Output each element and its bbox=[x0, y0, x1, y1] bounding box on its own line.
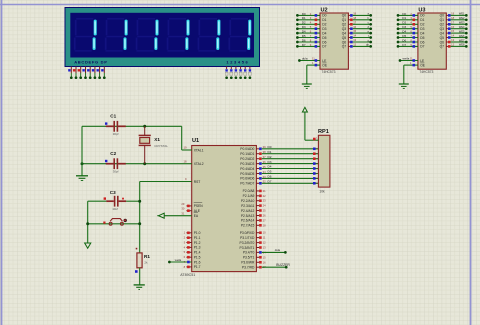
U1 pin 26 P2.5 bbox=[256, 214, 266, 218]
svg-text:D5: D5 bbox=[402, 34, 406, 38]
wire C3 left elbow down bbox=[88, 201, 140, 243]
svg-text:21: 21 bbox=[263, 189, 266, 193]
display segment pin DP bbox=[101, 67, 105, 80]
U2 input pin D6 wire + net label D6 bbox=[296, 38, 320, 43]
svg-text:D2: D2 bbox=[402, 21, 406, 25]
wire button row bbox=[88, 223, 140, 225]
U1 pin 29 PSEN bbox=[181, 202, 191, 207]
svg-text:D1: D1 bbox=[322, 18, 326, 22]
U2 output pin Q7 (pin 12) wire + net label dp bbox=[348, 43, 372, 48]
svg-text:Q1: Q1 bbox=[440, 18, 445, 22]
svg-text:D7: D7 bbox=[420, 45, 424, 49]
svg-text:D3: D3 bbox=[268, 160, 272, 164]
svg-text:ABCDEFG DP: ABCDEFG DP bbox=[74, 59, 107, 64]
U3 input pin D3 wire + net label D3 bbox=[397, 25, 418, 30]
U3 output pin Q4 (pin 15) wire + net label WE5 bbox=[446, 29, 467, 34]
svg-text:30: 30 bbox=[181, 207, 184, 211]
svg-text:D0: D0 bbox=[420, 14, 424, 18]
svg-text:PSEN: PSEN bbox=[194, 204, 204, 208]
display segment pin F bbox=[92, 67, 96, 80]
U2 LE pin (11) wire, net label dula bbox=[298, 57, 320, 62]
svg-text:Q5: Q5 bbox=[342, 36, 347, 40]
svg-text:dula: dula bbox=[275, 248, 281, 252]
U1 pin 23 P2.2 bbox=[256, 199, 266, 203]
svg-text:WE7: WE7 bbox=[459, 38, 465, 42]
svg-text:D6: D6 bbox=[322, 40, 326, 44]
svg-text:P1.3: P1.3 bbox=[194, 246, 201, 250]
capacitor C2 30pf bbox=[105, 151, 126, 173]
RP1 pin 4 bbox=[313, 157, 318, 160]
svg-text:P1.1: P1.1 bbox=[194, 236, 201, 240]
capacitor C1 30pf bbox=[105, 114, 126, 137]
svg-text:31: 31 bbox=[181, 212, 184, 216]
svg-text:74HC573: 74HC573 bbox=[419, 70, 433, 74]
svg-text:D4: D4 bbox=[420, 31, 424, 35]
display digit 5 showing 1 bbox=[198, 18, 221, 52]
svg-text:P1.6: P1.6 bbox=[194, 260, 201, 264]
svg-text:P3.3/INT1: P3.3/INT1 bbox=[240, 246, 255, 250]
wire RST net from U1 bbox=[140, 182, 192, 253]
svg-text:D3: D3 bbox=[302, 25, 306, 29]
RP1 pin 5 bbox=[313, 162, 318, 165]
svg-text:D6: D6 bbox=[268, 175, 272, 179]
U1 pin 3 P1.2 bbox=[184, 240, 192, 244]
svg-text:29: 29 bbox=[181, 202, 184, 206]
U3 input pin D5 wire + net label D5 bbox=[397, 34, 418, 39]
svg-text:Q7: Q7 bbox=[440, 45, 445, 49]
resistor pack RP1 10k body bbox=[318, 129, 330, 193]
svg-text:39: 39 bbox=[263, 145, 266, 149]
svg-text:U2: U2 bbox=[321, 7, 328, 13]
svg-text:C2: C2 bbox=[110, 151, 116, 156]
svg-text:19: 19 bbox=[184, 146, 187, 150]
ground symbol below C2 bbox=[76, 176, 88, 181]
U1 pin 33 P0.6 wire to RP1, net label D6 bbox=[256, 175, 318, 180]
svg-text:XTAL1: XTAL1 bbox=[194, 148, 204, 152]
U1 pin 36 P0.3 wire to RP1, net label D3 bbox=[256, 160, 318, 165]
svg-text:P2.3/A11: P2.3/A11 bbox=[241, 204, 254, 208]
junction node button left bbox=[86, 222, 89, 225]
U1 pin 9 RST bbox=[185, 177, 187, 181]
svg-text:P0.5/AD5: P0.5/AD5 bbox=[240, 172, 254, 176]
IC U3 74HC573 body bbox=[418, 7, 446, 74]
svg-text:WE6: WE6 bbox=[459, 34, 465, 38]
svg-text:WE3: WE3 bbox=[459, 21, 465, 25]
svg-text:D7: D7 bbox=[402, 43, 406, 47]
svg-text:D5: D5 bbox=[268, 170, 272, 174]
svg-text:RP1: RP1 bbox=[318, 129, 329, 135]
svg-text:RST: RST bbox=[194, 180, 201, 184]
svg-text:D6: D6 bbox=[420, 40, 424, 44]
svg-text:74HC573: 74HC573 bbox=[322, 70, 336, 74]
svg-text:18: 18 bbox=[184, 160, 187, 164]
svg-text:Q3: Q3 bbox=[342, 27, 347, 31]
U1 pin 39 P0.0 wire to RP1, net label D0 bbox=[256, 145, 318, 150]
IC U2 74HC573 body bbox=[320, 7, 348, 74]
svg-text:D2: D2 bbox=[302, 21, 306, 25]
svg-text:WE1: WE1 bbox=[459, 12, 465, 16]
U2 OE pin (1) wire to ground bbox=[307, 61, 320, 84]
display digit 1 showing 1 bbox=[74, 18, 97, 52]
svg-text:P2.0/A8: P2.0/A8 bbox=[243, 189, 255, 193]
svg-text:P2.2/A10: P2.2/A10 bbox=[241, 199, 255, 203]
U1 pin 28 P2.7 bbox=[256, 223, 266, 227]
svg-text:P0.3/AD3: P0.3/AD3 bbox=[240, 162, 254, 166]
svg-text:P1.2: P1.2 bbox=[194, 241, 201, 245]
svg-text:Q2: Q2 bbox=[342, 23, 347, 27]
U1 pin 17 P3.7 bbox=[256, 263, 290, 269]
U1 pin 25 P2.4 bbox=[256, 209, 266, 213]
svg-text:P2.7/A15: P2.7/A15 bbox=[241, 224, 255, 228]
svg-text:D3: D3 bbox=[322, 27, 326, 31]
svg-text:weila: weila bbox=[175, 258, 182, 262]
U3 output pin Q7 (pin 12) wire + net label WE8 bbox=[446, 43, 467, 48]
U3 OE pin (1) wire to ground bbox=[404, 61, 418, 84]
wire: left vertical C1-C2-ground bbox=[81, 126, 83, 175]
U1 pin 16 P3.6 bbox=[256, 260, 266, 264]
svg-text:D5: D5 bbox=[322, 36, 326, 40]
U2 output pin Q6 (pin 13) wire + net label g bbox=[348, 38, 372, 43]
crystal X1 bbox=[139, 126, 169, 163]
svg-text:32: 32 bbox=[263, 180, 266, 184]
U1 pin 14 P3.4 bbox=[256, 248, 286, 254]
svg-text:D0: D0 bbox=[322, 14, 326, 18]
svg-text:D7: D7 bbox=[268, 180, 272, 184]
U2 input pin D2 wire + net label D2 bbox=[296, 21, 320, 26]
display digit-select pin 6 bbox=[249, 67, 252, 80]
wire R1 to ground bbox=[139, 268, 141, 285]
U3 output pin Q0 (pin 19) wire + net label WE1 bbox=[446, 12, 467, 17]
U1 pin 8 P1.7 bbox=[184, 265, 192, 269]
svg-text:D6: D6 bbox=[302, 38, 306, 42]
svg-text:D6: D6 bbox=[402, 38, 406, 42]
U1 pin 22 P2.1 bbox=[256, 194, 266, 198]
U1 pin 11 P3.1 bbox=[256, 236, 265, 240]
ground arrow below button bbox=[85, 243, 91, 248]
svg-text:30pf: 30pf bbox=[113, 132, 119, 136]
svg-text:37: 37 bbox=[263, 155, 266, 159]
svg-text:P0.6/AD6: P0.6/AD6 bbox=[240, 177, 254, 181]
svg-text:P1.0: P1.0 bbox=[194, 231, 201, 235]
display digit-select pin 2 bbox=[230, 67, 233, 80]
U2 output pin Q1 (pin 18) wire + net label b bbox=[348, 16, 372, 21]
svg-text:P0.7/AD7: P0.7/AD7 bbox=[240, 182, 254, 186]
svg-text:D0: D0 bbox=[302, 12, 306, 16]
U2 input pin D1 wire + net label D1 bbox=[296, 16, 320, 21]
svg-text:WE8: WE8 bbox=[459, 43, 465, 47]
U1 pin 34 P0.5 wire to RP1, net label D5 bbox=[256, 170, 318, 175]
U1 pin 5 P1.4 bbox=[184, 250, 192, 254]
U1 pin 12 P3.2 bbox=[256, 241, 266, 245]
U1 pin 1 P1.0 bbox=[184, 231, 192, 235]
svg-text:D4: D4 bbox=[302, 30, 306, 34]
svg-text:C3: C3 bbox=[110, 190, 116, 195]
svg-text:D4: D4 bbox=[322, 31, 326, 35]
U2 input pin D7 wire + net label D7 bbox=[296, 43, 320, 48]
RP1 pin 8 bbox=[313, 177, 318, 180]
display digit-select pin 5 bbox=[244, 67, 247, 80]
svg-text:27: 27 bbox=[263, 218, 266, 222]
svg-text:U1: U1 bbox=[192, 138, 199, 144]
U2 output pin Q5 (pin 14) wire + net label f bbox=[348, 34, 372, 39]
svg-text:Q0: Q0 bbox=[440, 14, 445, 18]
svg-text:Q4: Q4 bbox=[342, 31, 347, 35]
U1 pin 38 P0.1 wire to RP1, net label D1 bbox=[256, 150, 318, 155]
svg-text:10uf: 10uf bbox=[112, 207, 118, 211]
display digit-select pin 1 bbox=[225, 67, 228, 80]
svg-text:Q0: Q0 bbox=[342, 14, 347, 18]
ground symbol under U2 bbox=[302, 84, 312, 88]
svg-text:P3.6/WR: P3.6/WR bbox=[241, 261, 255, 265]
svg-text:P3.2/INT0: P3.2/INT0 bbox=[240, 241, 255, 245]
U1 pin 37 P0.2 wire to RP1, net label D2 bbox=[256, 155, 318, 160]
sheet border top bbox=[0, 4, 480, 6]
svg-text:22: 22 bbox=[263, 194, 266, 198]
svg-text:D0: D0 bbox=[268, 145, 272, 149]
power symbol (VCC arrow) above RP1 bbox=[302, 107, 307, 112]
svg-text:25: 25 bbox=[263, 209, 266, 213]
wire XTAL1 net: C1 row bbox=[82, 126, 182, 150]
sheet border left bbox=[1, 0, 3, 325]
U2 output pin Q2 (pin 17) wire + net label c bbox=[348, 20, 372, 25]
ground symbol under U3 bbox=[399, 84, 409, 88]
U1 pin 32 P0.7 wire to RP1, net label D7 bbox=[256, 180, 318, 185]
svg-text:P0.4/AD4: P0.4/AD4 bbox=[240, 167, 254, 171]
svg-text:D1: D1 bbox=[302, 16, 306, 20]
svg-text:26: 26 bbox=[263, 214, 266, 218]
svg-text:R1: R1 bbox=[144, 254, 150, 259]
display digit-select pin 3 bbox=[235, 67, 238, 80]
svg-text:33: 33 bbox=[263, 175, 266, 179]
svg-text:WE2: WE2 bbox=[459, 16, 465, 20]
U1 pin 21 P2.0 bbox=[256, 189, 266, 193]
svg-text:Q6: Q6 bbox=[342, 40, 347, 44]
sheet border right bbox=[470, 0, 472, 325]
svg-text:P3.5/T1: P3.5/T1 bbox=[243, 256, 255, 260]
svg-text:12: 12 bbox=[263, 241, 266, 245]
svg-text:P1.5: P1.5 bbox=[194, 256, 201, 260]
svg-text:23: 23 bbox=[263, 199, 266, 203]
svg-text:OE: OE bbox=[420, 63, 426, 67]
svg-text:D3: D3 bbox=[420, 27, 424, 31]
svg-text:D4: D4 bbox=[402, 30, 406, 34]
U2 output pin Q3 (pin 16) wire + net label d bbox=[348, 25, 372, 30]
U1 pin 6 P1.5 bbox=[184, 255, 192, 259]
svg-text:WE4: WE4 bbox=[459, 25, 465, 29]
U2 input pin D0 wire + net label D0 bbox=[296, 12, 320, 17]
svg-text:D5: D5 bbox=[302, 34, 306, 38]
svg-text:Q2: Q2 bbox=[440, 23, 445, 27]
svg-text:36: 36 bbox=[263, 160, 266, 164]
svg-text:weila: weila bbox=[403, 57, 410, 61]
display digit-select pin 4 bbox=[239, 67, 242, 80]
U1 pin 35 P0.4 wire to RP1, net label D4 bbox=[256, 165, 318, 170]
wire XTAL2 net: C2 row to U1 bbox=[82, 163, 192, 165]
svg-text:Q1: Q1 bbox=[342, 18, 347, 22]
U1 pin 30 ALE bbox=[181, 207, 191, 212]
U1 pin 7 P1.6 bbox=[168, 258, 192, 264]
svg-text:P1.4: P1.4 bbox=[194, 251, 201, 255]
display digit 4 showing 1 bbox=[167, 18, 190, 52]
svg-text:D0: D0 bbox=[402, 12, 406, 16]
svg-text:38: 38 bbox=[263, 150, 266, 154]
svg-text:34: 34 bbox=[263, 170, 266, 174]
svg-text:30pf: 30pf bbox=[113, 170, 119, 174]
push button (reset) bbox=[103, 219, 127, 226]
6-digit 7-segment display module bbox=[65, 8, 260, 67]
U1 pin 13 P3.3 bbox=[256, 246, 266, 250]
U1 pin 24 P2.3 bbox=[256, 204, 266, 208]
svg-text:15: 15 bbox=[263, 255, 266, 259]
svg-text:Q6: Q6 bbox=[440, 40, 445, 44]
svg-text:Q3: Q3 bbox=[440, 27, 445, 31]
junction node at X1 bottom bbox=[143, 162, 146, 165]
svg-text:Q5: Q5 bbox=[440, 36, 445, 40]
display digit 3 showing 1 bbox=[136, 18, 159, 52]
svg-text:D5: D5 bbox=[420, 36, 424, 40]
U1 pin 4 P1.3 bbox=[184, 245, 192, 249]
U1 pin 18 XTAL2 bbox=[184, 160, 187, 164]
svg-text:D1: D1 bbox=[402, 16, 406, 20]
U1 pin 2 P1.1 bbox=[184, 236, 192, 240]
U3 output pin Q6 (pin 13) wire + net label WE7 bbox=[446, 38, 467, 43]
C3 right pin mark bbox=[122, 198, 124, 200]
svg-text:28: 28 bbox=[263, 223, 266, 227]
svg-text:Q4: Q4 bbox=[440, 31, 445, 35]
RP1 pin 6 bbox=[313, 167, 318, 170]
svg-text:D3: D3 bbox=[402, 25, 406, 29]
svg-text:AT89C51: AT89C51 bbox=[180, 273, 195, 277]
svg-text:D4: D4 bbox=[268, 165, 272, 169]
svg-text:11: 11 bbox=[263, 236, 266, 240]
display digit 2 showing 1 bbox=[105, 18, 128, 52]
RP1 pin 2 bbox=[313, 148, 318, 151]
svg-text:P3.0/RXD: P3.0/RXD bbox=[240, 231, 255, 235]
svg-text:X1: X1 bbox=[154, 137, 160, 142]
RP1 pin 9 bbox=[313, 182, 318, 185]
svg-text:P0.2/AD2: P0.2/AD2 bbox=[240, 157, 254, 161]
display segment pin C bbox=[78, 67, 82, 80]
svg-text:P3.4/T0: P3.4/T0 bbox=[243, 251, 255, 255]
svg-text:P0.1/AD1: P0.1/AD1 bbox=[240, 152, 254, 156]
U3 input pin D6 wire + net label D6 bbox=[397, 38, 418, 43]
svg-text:D2: D2 bbox=[268, 155, 272, 159]
R1 bottom pin indicator bbox=[135, 270, 138, 273]
svg-text:WE5: WE5 bbox=[459, 29, 465, 33]
U3 input pin D2 wire + net label D2 bbox=[397, 21, 418, 26]
svg-text:dula: dula bbox=[302, 57, 308, 61]
svg-text:Q7: Q7 bbox=[342, 45, 347, 49]
U2 input pin D3 wire + net label D3 bbox=[296, 25, 320, 30]
RP1 pin 3 bbox=[313, 152, 318, 155]
U2 output pin Q0 (pin 19) wire + net label a bbox=[348, 12, 372, 17]
display digit 6 showing 1 bbox=[229, 18, 252, 52]
svg-text:10: 10 bbox=[263, 231, 266, 235]
U3 input pin D0 wire + net label D0 bbox=[397, 12, 418, 17]
svg-text:D1: D1 bbox=[420, 18, 424, 22]
capacitor C3 10uf bbox=[104, 190, 127, 211]
svg-text:P3.7/RD: P3.7/RD bbox=[242, 266, 255, 270]
junction node at X1 top bbox=[143, 125, 146, 128]
svg-text:XTAL2: XTAL2 bbox=[194, 162, 204, 166]
U1 pin 10 P3.0 bbox=[256, 231, 266, 235]
svg-text:D1: D1 bbox=[268, 150, 272, 154]
svg-text:D2: D2 bbox=[420, 23, 424, 27]
svg-text:24: 24 bbox=[263, 204, 266, 208]
U3 output pin Q3 (pin 16) wire + net label WE4 bbox=[446, 25, 467, 30]
junction node C3/RST vertical bbox=[138, 200, 141, 203]
U2 input pin D4 wire + net label D4 bbox=[296, 30, 320, 35]
microcontroller U1 AT89C51 body bbox=[180, 138, 256, 277]
U1 pin 31 EA with power arrow bbox=[157, 212, 192, 219]
U2 input pin D5 wire + net label D5 bbox=[296, 34, 320, 39]
U3 output pin Q2 (pin 17) wire + net label WE3 bbox=[446, 20, 467, 25]
U3 output pin Q5 (pin 14) wire + net label WE6 bbox=[446, 34, 467, 39]
U3 input pin D7 wire + net label D7 bbox=[397, 43, 418, 48]
display segment pin G bbox=[97, 67, 101, 80]
svg-text:OE: OE bbox=[322, 63, 328, 67]
svg-text:D7: D7 bbox=[322, 45, 326, 49]
display segment pin D bbox=[82, 67, 86, 80]
svg-text:C1: C1 bbox=[110, 114, 116, 119]
svg-text:P0.0/AD0: P0.0/AD0 bbox=[240, 147, 254, 151]
svg-text:P2.5/A13: P2.5/A13 bbox=[241, 214, 255, 218]
svg-text:16: 16 bbox=[263, 260, 266, 264]
svg-text:13: 13 bbox=[263, 246, 266, 250]
svg-text:P3.1/TXD: P3.1/TXD bbox=[240, 236, 255, 240]
U2 output pin Q4 (pin 15) wire + net label e bbox=[348, 29, 372, 34]
resistor R1 2k bbox=[136, 248, 151, 268]
svg-text:BUZZER: BUZZER bbox=[276, 263, 290, 267]
U3 LE pin (11) wire, net label weila bbox=[399, 57, 418, 62]
U1 pin 27 P2.6 bbox=[256, 218, 266, 222]
display segment pin B bbox=[73, 67, 77, 80]
svg-text:10k: 10k bbox=[319, 189, 325, 193]
display segment pin A bbox=[68, 67, 72, 80]
U3 input pin D4 wire + net label D4 bbox=[397, 30, 418, 35]
junction node C2/ground vertical bbox=[81, 162, 84, 165]
svg-text:P2.6/A14: P2.6/A14 bbox=[241, 219, 255, 223]
svg-text:2k: 2k bbox=[144, 261, 148, 265]
RP1 pin 7 bbox=[313, 172, 318, 175]
svg-text:CRYSTAL: CRYSTAL bbox=[154, 144, 168, 148]
U1 pin 19 XTAL1 bbox=[182, 146, 192, 150]
svg-text:123456: 123456 bbox=[226, 59, 249, 64]
svg-text:D7: D7 bbox=[302, 43, 306, 47]
ground symbol below R1 bbox=[134, 285, 145, 290]
svg-text:35: 35 bbox=[263, 165, 266, 169]
svg-text:P2.1/A9: P2.1/A9 bbox=[243, 194, 255, 198]
svg-text:D2: D2 bbox=[322, 23, 326, 27]
RP1 pin 1 (common) wire to power bbox=[305, 112, 319, 141]
svg-text:P2.4/A12: P2.4/A12 bbox=[241, 209, 255, 213]
U3 input pin D1 wire + net label D1 bbox=[397, 16, 418, 21]
U1 pin 15 P3.5 bbox=[256, 255, 266, 259]
junction node button right bbox=[138, 222, 141, 225]
svg-text:P1.7: P1.7 bbox=[194, 265, 201, 269]
svg-text:U3: U3 bbox=[418, 7, 425, 13]
display segment pin E bbox=[87, 67, 91, 80]
U3 output pin Q1 (pin 18) wire + net label WE2 bbox=[446, 16, 467, 21]
